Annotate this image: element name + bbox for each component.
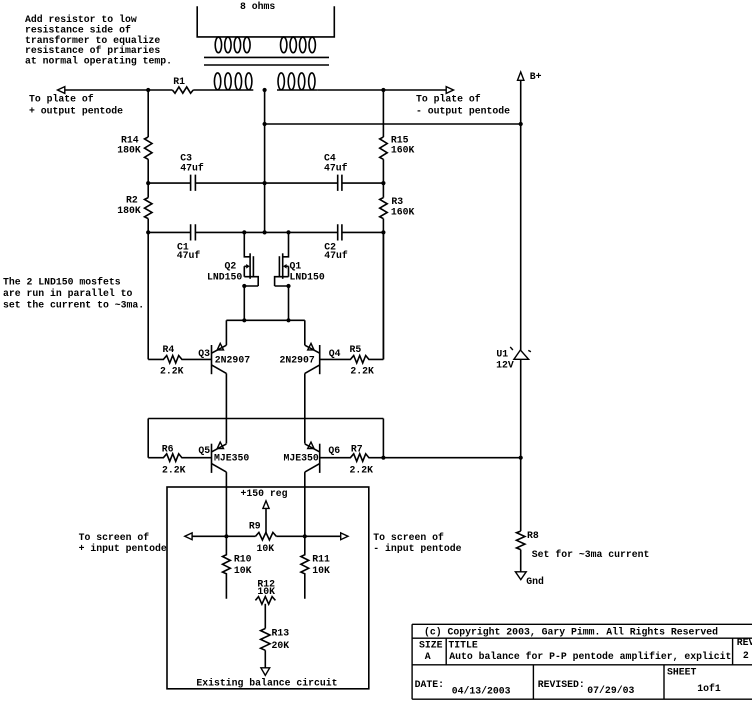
svg-text:R9: R9 <box>249 521 261 532</box>
resistor R5 <box>320 344 384 377</box>
svg-text:R1: R1 <box>173 76 185 87</box>
svg-text:47uf: 47uf <box>180 163 204 174</box>
svg-text:Auto balance for P-P pentode a: Auto balance for P-P pentode amplifier, … <box>449 651 731 662</box>
svg-text:47uf: 47uf <box>324 250 348 261</box>
svg-text:REV: REV <box>737 637 752 648</box>
wire R13 to arrow <box>264 650 266 668</box>
svg-text:Set for ~3ma current: Set for ~3ma current <box>532 549 650 560</box>
wire +150 to R9 <box>265 508 267 533</box>
svg-text:To screen of: To screen of <box>79 532 150 543</box>
svg-text:(c) Copyright 2003, Gary Pimm.: (c) Copyright 2003, Gary Pimm. All Right… <box>424 627 718 638</box>
svg-text:20K: 20K <box>272 640 290 651</box>
annotation note mosfets <box>3 277 144 311</box>
wire rail418 right corner down <box>382 419 384 458</box>
wire R12 to R13 <box>264 604 266 629</box>
svg-text:To screen of: To screen of <box>373 532 444 543</box>
label to screen + input <box>79 532 167 554</box>
svg-text:- input pentode: - input pentode <box>373 543 461 554</box>
svg-text:LND150: LND150 <box>207 271 242 282</box>
svg-text:+150 reg: +150 reg <box>241 488 288 499</box>
arrow to screen of + input pentode <box>185 533 192 540</box>
svg-text:12V: 12V <box>496 360 514 371</box>
transformer T1 secondary winding <box>197 6 334 53</box>
capacitor C3 <box>180 153 204 191</box>
svg-text:2.2K: 2.2K <box>350 464 374 475</box>
wire collector rail y=418.5 <box>148 418 383 420</box>
svg-text:160K: 160K <box>391 144 415 155</box>
svg-text:+ output pentode: + output pentode <box>29 105 123 116</box>
node screen row left <box>224 534 228 538</box>
wire primary to right plate arrow <box>317 89 446 91</box>
svg-text:are run in parallel to: are run in parallel to <box>3 288 132 299</box>
node tap/B+ wire left <box>263 122 267 126</box>
svg-text:2N2907: 2N2907 <box>215 355 250 366</box>
wire screen row y=536.3 <box>192 535 341 537</box>
node zener junction <box>519 456 523 460</box>
label to screen - input <box>373 532 461 554</box>
svg-text:R11: R11 <box>312 553 330 564</box>
node row183 right <box>381 181 385 185</box>
wire C1/C2 row y=232 <box>148 231 383 233</box>
svg-text:R2: R2 <box>126 194 138 205</box>
svg-text:R7: R7 <box>351 444 363 455</box>
svg-text:set the current to ~3ma.: set the current to ~3ma. <box>3 300 144 311</box>
svg-text:R4: R4 <box>163 344 175 355</box>
right rail vertical x=383 <box>382 90 384 359</box>
arrow down in box <box>261 668 270 676</box>
wire Q4 collector to rail418 <box>304 373 306 443</box>
svg-text:10K: 10K <box>257 586 275 597</box>
svg-text:resistance side of: resistance side of <box>25 24 131 35</box>
title block rev <box>737 637 752 661</box>
resistor R7 <box>320 444 384 476</box>
node row183 center <box>263 181 267 185</box>
node row232 q1 drain <box>286 230 290 234</box>
svg-text:Q5: Q5 <box>198 445 210 456</box>
svg-text:Add resistor to low: Add resistor to low <box>25 14 137 25</box>
transistor Q5 MJE350 <box>198 442 249 473</box>
zener diode U1 12V <box>496 124 531 458</box>
wire center tap vertical <box>264 90 266 232</box>
resistor R15 <box>380 134 415 159</box>
wire mosfet source rail y=320 <box>226 319 304 321</box>
capacitor C1 <box>177 224 201 261</box>
svg-text:Q3: Q3 <box>198 348 210 359</box>
svg-text:Gnd: Gnd <box>526 576 544 587</box>
resistor R4 <box>148 344 211 376</box>
title block date <box>415 679 511 697</box>
node primary center tap <box>263 88 267 92</box>
svg-text:2N2907: 2N2907 <box>280 355 315 366</box>
node row232 right <box>381 230 385 234</box>
resistor R1 <box>172 76 193 93</box>
wire Q5 collector into box <box>225 472 227 536</box>
svg-text:R5: R5 <box>350 344 362 355</box>
wire zener to R8 <box>520 458 522 531</box>
transformer T1 primary winding <box>213 73 317 90</box>
svg-text:transformer to equalize: transformer to equalize <box>25 35 160 46</box>
svg-text:+ input pentode: + input pentode <box>79 543 167 554</box>
svg-text:To plate of: To plate of <box>416 93 481 104</box>
svg-text:Q6: Q6 <box>328 445 340 456</box>
wire center tap to B+ <box>265 123 521 125</box>
svg-text:1of1: 1of1 <box>697 683 721 694</box>
capacitor C4 <box>324 153 348 191</box>
mosfet Q2 LND150 <box>207 232 258 320</box>
svg-text:A: A <box>425 651 431 662</box>
svg-text:U1: U1 <box>496 348 508 359</box>
svg-text:Q4: Q4 <box>329 348 341 359</box>
wire rail418 left corner down <box>147 419 149 458</box>
svg-text:TITLE: TITLE <box>448 640 478 651</box>
wire Q3 collector to rail418 <box>225 373 227 443</box>
svg-text:R13: R13 <box>272 628 290 639</box>
svg-text:47uf: 47uf <box>324 163 348 174</box>
mosfet Q1 LND150 <box>275 232 325 320</box>
svg-text:10K: 10K <box>312 565 330 576</box>
title block border <box>412 624 752 699</box>
title block title <box>448 640 731 662</box>
svg-text:47uf: 47uf <box>177 250 201 261</box>
existing balance circuit box <box>167 487 369 689</box>
svg-text:160K: 160K <box>391 206 415 217</box>
svg-text:SIZE: SIZE <box>419 640 443 651</box>
title block size <box>419 640 443 662</box>
svg-text:2.2K: 2.2K <box>350 365 374 376</box>
svg-text:180K: 180K <box>117 205 141 216</box>
annotation note top-left <box>25 14 172 67</box>
node left plate junction <box>146 88 150 92</box>
svg-text:R10: R10 <box>234 553 252 564</box>
left rail vertical x=148 <box>147 90 149 359</box>
node rail320 q2 <box>242 318 246 322</box>
svg-text:8 ohms: 8 ohms <box>240 1 275 12</box>
svg-text:MJE350: MJE350 <box>284 453 319 464</box>
node screen row right <box>303 534 307 538</box>
arrow to plate of - output pentode <box>446 87 453 94</box>
wire plate row left <box>65 89 173 91</box>
title block sheet <box>667 667 721 695</box>
arrow to plate of + output pentode <box>58 87 65 94</box>
svg-text:R3: R3 <box>391 196 403 207</box>
node Q2 source <box>242 284 246 288</box>
node Q1 source <box>286 284 290 288</box>
svg-text:To plate of: To plate of <box>29 93 94 104</box>
svg-text:at normal operating temp.: at normal operating temp. <box>25 56 172 67</box>
svg-text:MJE350: MJE350 <box>214 453 249 464</box>
wire C3/C4 row y=183 <box>148 182 383 184</box>
resistor R10 <box>223 536 252 599</box>
arrow to screen of - input pentode <box>341 533 348 540</box>
svg-text:REVISED:: REVISED: <box>538 679 585 690</box>
resistor R14 <box>117 134 152 159</box>
svg-text:2.2K: 2.2K <box>162 464 186 475</box>
svg-text:LND150: LND150 <box>290 271 325 282</box>
node row183 left <box>146 181 150 185</box>
node right plate junction <box>381 88 385 92</box>
wire Q3 emitter drop <box>225 320 227 345</box>
wire R8 to ground <box>520 550 522 572</box>
resistor R6 <box>148 444 211 476</box>
wire base rail to zener <box>383 457 520 459</box>
svg-text:R6: R6 <box>162 444 174 455</box>
node row232 q2 drain <box>242 230 246 234</box>
title block revised <box>538 679 635 696</box>
transistor Q4 2N2907 <box>280 343 341 374</box>
svg-text:10K: 10K <box>257 543 275 554</box>
svg-text:180K: 180K <box>117 144 141 155</box>
resistor R3 <box>380 196 415 219</box>
svg-text:- output pentode: - output pentode <box>416 105 510 116</box>
svg-text:resistance of primaries: resistance of primaries <box>25 45 160 56</box>
resistor R9 <box>249 521 276 555</box>
node R7 junction <box>381 456 385 460</box>
transistor Q3 2N2907 <box>198 343 250 374</box>
resistor R11 <box>301 536 330 599</box>
wire R1 to primary <box>193 89 213 91</box>
svg-text:DATE:: DATE: <box>415 679 444 690</box>
node tap/B+ wire right <box>519 122 523 126</box>
transistor Q6 MJE350 <box>284 442 341 473</box>
svg-text:R8: R8 <box>527 530 539 541</box>
resistor R12 <box>255 579 275 605</box>
wire Q6 collector into box <box>304 472 306 536</box>
capacitor C2 <box>324 224 348 261</box>
resistor R13 <box>261 628 290 651</box>
B+ supply arrow <box>518 71 542 124</box>
transformer T1 core <box>204 57 329 65</box>
ground symbol <box>515 572 544 587</box>
node rail320 q1 <box>286 318 290 322</box>
node row232 left <box>146 230 150 234</box>
svg-text:Q2: Q2 <box>225 260 237 271</box>
svg-text:SHEET: SHEET <box>667 667 697 678</box>
label for + output pentode <box>29 93 123 116</box>
svg-text:04/13/2003: 04/13/2003 <box>452 686 511 697</box>
wire R5 corner up to right rail <box>382 232 384 359</box>
svg-text:2: 2 <box>743 650 749 661</box>
svg-text:The 2 LND150 mosfets: The 2 LND150 mosfets <box>3 277 121 288</box>
svg-text:10K: 10K <box>234 565 252 576</box>
svg-text:07/29/03: 07/29/03 <box>587 685 634 696</box>
svg-text:2.2K: 2.2K <box>160 365 184 376</box>
resistor R8 <box>517 530 650 560</box>
resistor R2 <box>117 194 152 218</box>
svg-text:B+: B+ <box>530 71 542 82</box>
svg-text:Existing balance circuit: Existing balance circuit <box>196 678 337 689</box>
wire Q4 emitter drop <box>304 320 306 345</box>
node row232 center <box>263 230 267 234</box>
label for - output pentode <box>416 93 510 116</box>
svg-text:Q1: Q1 <box>290 260 302 271</box>
arrow +150 reg <box>263 501 269 509</box>
